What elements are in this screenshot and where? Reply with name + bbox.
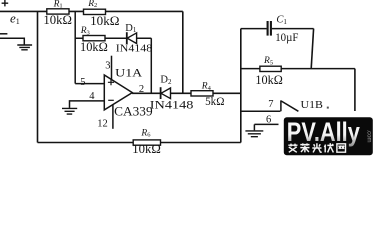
wire: left vertical rail from top rail down to bottom rail — [37, 11, 39, 142]
resistor R6 — [133, 140, 160, 145]
wire: pin 5 horizontal into U1A + input — [75, 83, 104, 85]
svg-text:5: 5 — [80, 77, 85, 88]
svg-text:IN4148: IN4148 — [150, 100, 194, 112]
svg-text:R4: R4 — [201, 82, 212, 92]
U1A plus input mark — [108, 79, 114, 85]
svg-text:R1: R1 — [53, 0, 63, 10]
resistor R5 — [260, 66, 281, 71]
svg-text:R5: R5 — [263, 56, 273, 66]
svg-text:6: 6 — [266, 115, 271, 126]
resistor R3 — [83, 36, 105, 41]
diode D1 — [127, 32, 137, 44]
wire: R3/D1 feedback row — [75, 37, 151, 39]
svg-text:IN4148: IN4148 — [116, 42, 153, 54]
diode D2 — [161, 87, 171, 99]
svg-text:D2: D2 — [160, 75, 172, 86]
source e1 negative terminal — [0, 33, 7, 35]
wire: R5 row from right rail to right corner — [241, 68, 355, 70]
svg-text:U1A: U1A — [115, 66, 142, 80]
svg-text:10kΩ: 10kΩ — [132, 142, 161, 156]
wire: pin 7 from right rail to U1B — [241, 110, 281, 112]
svg-text:2: 2 — [139, 84, 144, 95]
wire: pin 6 to ground — [254, 124, 278, 130]
wire: right rail from C1 row down to bottom rail — [240, 29, 242, 143]
svg-text:10kΩ: 10kΩ — [80, 40, 108, 54]
svg-text:5kΩ: 5kΩ — [205, 94, 224, 108]
watermark Chinese text wang — [337, 144, 346, 152]
resistor R1 — [47, 9, 69, 14]
resistor R2 — [84, 9, 106, 14]
svg-text:CA339: CA339 — [114, 103, 152, 118]
svg-text:U1B: U1B — [301, 99, 323, 111]
svg-text:12: 12 — [97, 119, 108, 130]
svg-text:PV.Ally: PV.Ally — [287, 117, 360, 147]
source e1 positive terminal — [2, 0, 9, 6]
ground at source e1 — [17, 45, 32, 50]
watermark Chinese text guang — [312, 143, 322, 152]
watermark Chinese text lai — [300, 143, 309, 152]
comparator U1B partial symbol — [281, 100, 299, 111]
wire: C1 row right segment to corner — [272, 28, 314, 30]
wire: top-right vertical drop from top rail to output node — [182, 11, 184, 93]
svg-text:D1: D1 — [125, 23, 137, 34]
wire: top rail from e1 + through R1 and R2 to top-right corner — [0, 10, 183, 12]
ground at U1B pin 6 — [245, 131, 263, 137]
wire: C1 row left segment — [241, 28, 267, 30]
svg-text:e1: e1 — [10, 11, 20, 26]
svg-text:3: 3 — [105, 61, 110, 72]
svg-text:4: 4 — [89, 91, 95, 102]
op-amp comparator U1A — [104, 75, 132, 110]
svg-text:R6: R6 — [140, 128, 151, 138]
watermark logo box — [284, 117, 373, 155]
svg-text:10kΩ: 10kΩ — [43, 13, 72, 27]
svg-text:10kΩ: 10kΩ — [255, 73, 282, 87]
wire: R5 row right vertical drop toward U1B output — [354, 69, 356, 111]
pin 3 stub of U1A — [111, 56, 113, 80]
wire: node A vertical from R1-R2 junction down to pin 5 — [74, 11, 76, 83]
watermark Chinese text fu — [324, 143, 333, 152]
ground at U1A pin 4 — [62, 108, 77, 114]
stray dot artifact right of U1B — [327, 107, 329, 109]
svg-text:R2: R2 — [87, 0, 97, 9]
svg-text:R3: R3 — [80, 26, 90, 36]
pin 12 stub of U1A — [112, 105, 114, 129]
svg-text:10µF: 10µF — [275, 30, 298, 44]
wire: feedback vertical drop from D1 row to U1A output — [150, 38, 152, 93]
capacitor C1 — [268, 21, 271, 36]
wire: bottom rail from left rail through R6 to right rail — [38, 142, 241, 144]
wire: e1 negative to ground — [0, 38, 24, 45]
watermark Chinese text ai — [288, 144, 297, 153]
wire: output row from U1A pin 2 through D2 and R4 to right rail — [132, 92, 241, 94]
wire: pin 4 to ground — [70, 101, 105, 108]
svg-text:7: 7 — [268, 99, 273, 110]
wire: C1 right vertical drop to R5 row — [311, 29, 313, 69]
svg-text:C1: C1 — [276, 15, 287, 26]
U1A minus input mark — [108, 99, 114, 101]
svg-text:.com: .com — [366, 130, 372, 143]
resistor R4 — [191, 91, 213, 96]
svg-text:10kΩ: 10kΩ — [90, 14, 119, 28]
